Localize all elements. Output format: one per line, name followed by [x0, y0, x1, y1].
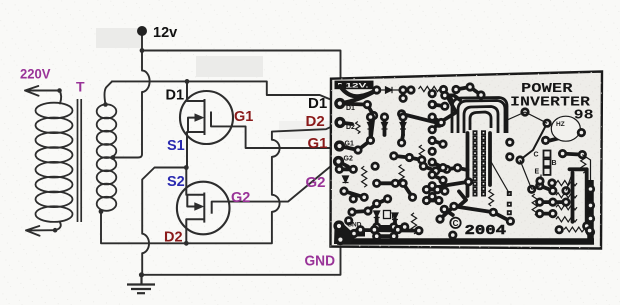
wire G1: Q1 gate to PCB G1 pad: [211, 126, 339, 148]
svg-text:G1: G1: [234, 109, 253, 125]
svg-text:GND: GND: [305, 253, 336, 270]
PCB copyright 2004: [450, 218, 460, 228]
svg-text:D2: D2: [346, 124, 355, 131]
220V lead bottom with arrow: [26, 226, 55, 236]
svg-text:D2: D2: [306, 113, 325, 130]
ground symbol: [127, 275, 155, 293]
svg-text:D1: D1: [308, 95, 327, 112]
junction right winding bottom: [99, 209, 104, 214]
scan artifact patch B: [196, 56, 263, 77]
junction 12v rail: [140, 48, 145, 53]
svg-text:G1: G1: [345, 141, 354, 148]
wire 12v rail to PCB top: [142, 51, 341, 81]
mosfet Q1 gate plate: [210, 112, 212, 127]
220V lead top with arrow: [25, 86, 60, 96]
svg-text:2004: 2004: [465, 224, 507, 239]
mosfet Q1 body circle: [180, 91, 233, 144]
svg-text:E: E: [535, 169, 540, 176]
junction center tap: [111, 155, 116, 160]
mosfet Q2 arrow: [194, 202, 204, 210]
junction left winding bottom: [53, 228, 58, 233]
svg-text:D1: D1: [346, 105, 355, 112]
wire 12v vertical with hop over D1 wire: [113, 51, 150, 158]
mosfet Q1 drain lead: [187, 81, 205, 101]
wire D2 net: winding bottom to Q2 drain and PCB D2 pad with hops: [101, 123, 340, 244]
mosfet Q2 body connection: [187, 195, 196, 207]
transformer core: [78, 99, 82, 222]
PCB zigzag right of 2004: [564, 227, 584, 232]
svg-text:D1: D1: [166, 88, 185, 104]
transformer right winding: [97, 104, 117, 210]
junction S1 S2: [184, 165, 189, 170]
svg-text:GND: GND: [347, 222, 362, 229]
transformer left winding: [36, 103, 73, 222]
PCB trimmer HZ: [551, 116, 580, 141]
svg-text:220V: 220V: [20, 66, 51, 82]
mosfet Q2 channel: [203, 193, 205, 223]
PCB transistor pads C B E: [544, 151, 551, 175]
PCB DIP footprint column left: [473, 130, 478, 196]
mosfet Q1 body connection: [188, 118, 197, 132]
mosfet Q1 source lead: [187, 132, 205, 168]
svg-text:E: E: [392, 214, 397, 221]
PCB thin link traces: [490, 112, 591, 194]
battery positive node 12v dot: [137, 26, 147, 36]
svg-text:S2: S2: [167, 174, 185, 190]
PCB GND corner blob: [334, 223, 357, 245]
svg-text:12v: 12v: [153, 25, 177, 41]
svg-text:G2: G2: [231, 190, 250, 206]
PCB zigzag center: [489, 189, 494, 206]
svg-text:HZ: HZ: [556, 121, 565, 128]
junction right winding top: [103, 102, 108, 107]
mosfet Q1 channel: [204, 99, 206, 135]
PCB bottom ground bar: [337, 180, 594, 242]
svg-text:C: C: [453, 219, 459, 228]
wire transformer right winding top lead: [105, 81, 112, 104]
PCB diode symbols vertical: [343, 123, 407, 220]
PCB connector pads left: [334, 98, 345, 109]
PCB diode symbols top row: [380, 87, 399, 93]
left winding lead top: [60, 91, 62, 104]
scan artifact patch C: [279, 121, 331, 139]
wire G2: Q2 gate to PCB G2 pad: [212, 164, 334, 202]
wire GND: ground node to PCB: [142, 247, 341, 275]
scan artifact patch A: [96, 28, 142, 48]
PCB scattered pads: [335, 82, 595, 240]
PCB resistor zigzags: [356, 86, 586, 233]
PCB GND corner pads: [333, 220, 344, 231]
ground node junction: [139, 272, 144, 277]
wire S net: S1/S2 junction to ground with hop over D2 wire: [142, 168, 186, 275]
PCB board outline: [331, 72, 603, 249]
left winding lead bottom: [55, 223, 61, 231]
wire D1 net: transformer top to Q1 drain and PCB D1 pad: [112, 81, 339, 103]
junction Q1 drain: [185, 79, 190, 84]
svg-text:G2: G2: [306, 174, 326, 191]
svg-text:G1: G1: [308, 135, 328, 152]
mosfet Q1 arrow: [195, 113, 205, 121]
PCB IC side square pads: [507, 191, 512, 223]
svg-text:G2: G2: [344, 156, 353, 163]
PCB nested loop traces: [445, 95, 507, 133]
svg-text:12V.: 12V.: [346, 83, 369, 90]
svg-text:B: B: [552, 160, 557, 167]
PCB DIP footprint column right: [481, 130, 486, 196]
mosfet Q2 gate plate: [211, 202, 213, 214]
wire 12v dot stem: [141, 34, 143, 51]
PCB thick traces: [339, 86, 587, 236]
mosfet Q2 body circle: [177, 182, 230, 235]
PCB 12V label box: [335, 81, 374, 90]
mosfet Q2 drain lead: [186, 219, 204, 243]
svg-text:S1: S1: [167, 138, 185, 154]
junction Q2 drain: [184, 241, 189, 246]
mosfet Q2 source lead: [186, 168, 204, 195]
PCB small E box: [384, 211, 391, 219]
svg-text:C: C: [534, 152, 539, 159]
svg-text:D2: D2: [164, 230, 183, 246]
svg-text:T: T: [76, 79, 85, 95]
junction left winding top: [57, 88, 62, 93]
